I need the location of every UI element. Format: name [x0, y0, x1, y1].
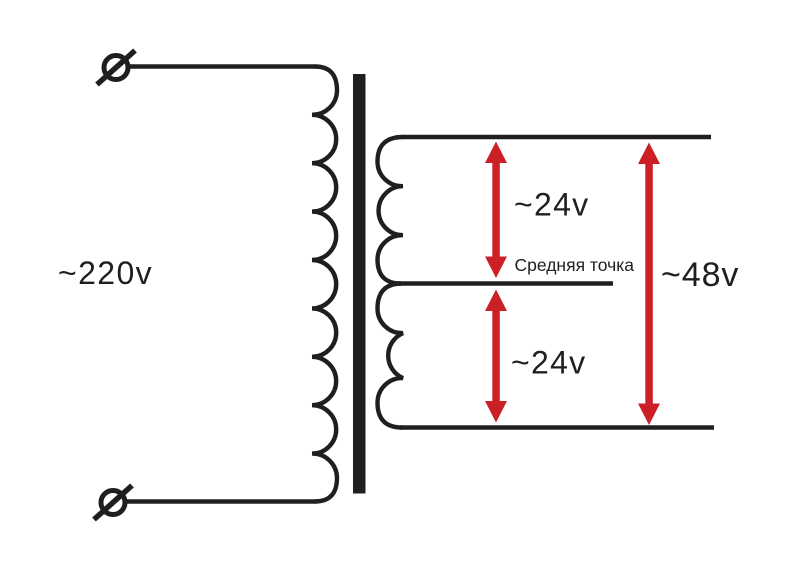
wire center tap — [398, 281, 613, 285]
svg-text:Средняя точка: Средняя точка — [515, 255, 635, 275]
core — [353, 74, 366, 494]
svg-text:~220v: ~220v — [58, 255, 153, 291]
secondary winding top half L2a — [378, 137, 404, 284]
arrow ~24v top (double-headed red) — [485, 142, 507, 279]
svg-text:~48v: ~48v — [661, 256, 739, 294]
svg-text:~24v: ~24v — [511, 345, 586, 381]
arrow ~48v (double-headed red, full span) — [638, 143, 660, 426]
wire primary top — [130, 64, 316, 68]
secondary winding bottom half L2b — [378, 284, 404, 428]
svg-text:~24v: ~24v — [514, 187, 589, 223]
terminal (primary bottom-left) — [94, 486, 132, 520]
arrow ~24v bottom (double-headed red) — [485, 290, 507, 423]
terminal (primary top-left) — [97, 51, 135, 85]
wire primary bottom — [127, 499, 316, 503]
primary winding L1 — [312, 67, 337, 502]
wire secondary top — [402, 135, 711, 139]
wire secondary bottom — [400, 425, 714, 429]
